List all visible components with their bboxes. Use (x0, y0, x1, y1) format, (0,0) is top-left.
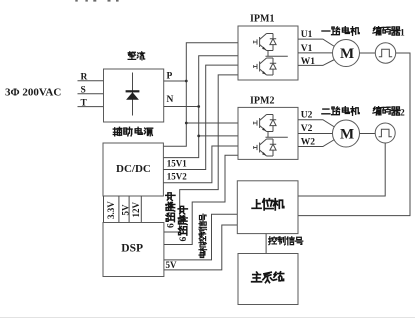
wire DC/DC to DSP 12V (140, 196, 142, 223)
encoder E1 (375, 43, 395, 63)
DSP box (103, 223, 164, 277)
wire P branch to IPM2 (186, 122, 238, 124)
encoder E2 (375, 123, 395, 143)
faint separator line at bottom (0, 317, 415, 319)
svg-text:U2: U2 (301, 111, 313, 121)
wire 6-channel pulses 1 (DSP to IPM1) (164, 75, 238, 232)
host computer box 上位机 (237, 181, 298, 234)
wire host to main system (control signal) (265, 234, 267, 254)
wire motor control signal (DSP to host) (164, 214, 237, 260)
label 6路脉冲 1 (rotated) (166, 193, 177, 228)
main system box 主系统 (238, 254, 298, 305)
svg-text:V1: V1 (301, 44, 313, 54)
wire encoder1 to host (298, 53, 410, 216)
svg-text:DSP: DSP (121, 243, 143, 255)
svg-text:V2: V2 (301, 124, 313, 134)
svg-text:U1: U1 (301, 30, 313, 40)
svg-text:N: N (167, 95, 174, 105)
junction P-IPM2 (185, 122, 188, 125)
wire W1 (298, 60, 335, 66)
wire P bus (163, 43, 238, 147)
wire U1 (298, 39, 335, 46)
wire DC/DC to DSP 3.3V (118, 196, 120, 223)
wire V2 (298, 133, 333, 135)
wire R (78, 80, 104, 82)
wire N bus (163, 56, 238, 158)
junction N-IPM2 (197, 135, 200, 138)
label 上位机 (252, 199, 284, 210)
junction P-rectifier (185, 80, 188, 83)
svg-text:M: M (340, 46, 354, 62)
wire N from rectifier (164, 106, 199, 108)
rectifier box (104, 69, 164, 122)
svg-text:DC/DC: DC/DC (116, 163, 151, 175)
label 编码器2 (encoder 2) (373, 107, 405, 119)
svg-text:3Φ 200VAC: 3Φ 200VAC (5, 87, 61, 99)
label 控制信号 (control signal) (269, 237, 303, 245)
label 编码器1 (encoder 1) (373, 27, 405, 39)
junction N-rectifier (197, 105, 200, 108)
svg-text:3.3V: 3.3V (106, 201, 116, 219)
svg-text:IPM2: IPM2 (250, 96, 274, 107)
svg-text:P: P (167, 72, 173, 82)
wire M2 to encoder2 (360, 133, 376, 135)
label 6路脉冲 2 (rotated) (178, 206, 189, 241)
wire V1 (298, 52, 333, 54)
wire DC/DC to DSP 5V (128, 196, 130, 223)
label 电机控制信号 (rotated) (199, 214, 207, 258)
svg-text:1: 1 (400, 28, 405, 38)
IGBT Q3 (IPM2 top) with diode (254, 115, 277, 132)
diode D1 (126, 73, 140, 116)
wire N branch to IPM2 (199, 135, 238, 137)
svg-text:2: 2 (400, 108, 405, 118)
label 二路电机 (motor 2) (322, 107, 359, 116)
IPM2 phase node line (266, 132, 288, 138)
wire 15V2 (163, 146, 238, 183)
svg-text:6: 6 (179, 237, 189, 242)
wire S (78, 93, 104, 95)
label 一路电机 (motor 1) (322, 27, 359, 36)
motor M2 (333, 120, 360, 147)
svg-text:5V: 5V (166, 260, 178, 270)
IGBT Q2 (IPM1 bottom) with diode (254, 58, 277, 75)
wire encoder2 to host (298, 143, 385, 196)
svg-text:12V: 12V (131, 202, 141, 218)
label 主系统 (252, 272, 284, 283)
label 整流 (rectifier) (128, 52, 145, 60)
wire T (78, 106, 104, 108)
DC/DC converter box (103, 143, 163, 196)
label 辅助电源 (auxiliary power) (113, 127, 152, 136)
svg-text:15V2: 15V2 (167, 172, 187, 182)
IPM1 box (238, 26, 298, 80)
IPM2 box (238, 107, 298, 159)
wire 6-channel pulses 2 (DSP to IPM2) (164, 155, 238, 244)
IGBT Q4 (IPM2 bottom) with diode (254, 139, 277, 156)
svg-text:5V: 5V (120, 204, 130, 216)
IGBT Q1 (IPM1 top) with diode (254, 34, 277, 51)
IPM1 phase node line (266, 51, 288, 57)
svg-text:IPM1: IPM1 (250, 14, 274, 25)
svg-text:6: 6 (167, 223, 177, 228)
wire 15V1 (163, 65, 238, 169)
wire M1 to encoder1 (360, 52, 376, 54)
wire 5V (DSP to host) (164, 225, 237, 270)
motor M1 (333, 40, 360, 67)
svg-text:M: M (340, 127, 354, 143)
wire U2 (298, 120, 335, 127)
wire P from rectifier (164, 80, 187, 82)
wire DC/DC to DSP #1 (103, 196, 105, 223)
svg-text:15V1: 15V1 (167, 158, 187, 168)
wire W2 (298, 140, 335, 147)
cropped text marks at very top (75, 0, 118, 2)
